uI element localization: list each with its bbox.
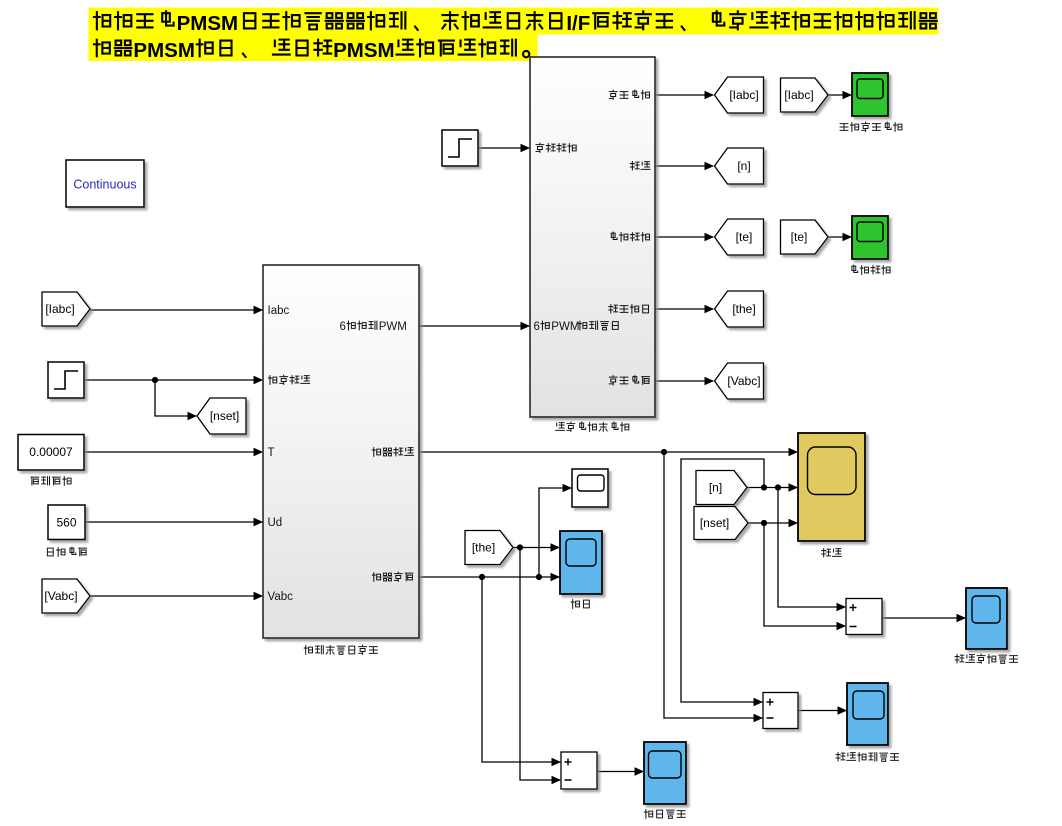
- svg-text:[the]: [the]: [732, 302, 755, 316]
- sum block 转速实际误差: [846, 599, 882, 635]
- wire from nset to scope 转速: [747, 522, 797, 524]
- caption 直流电压: [47, 547, 86, 556]
- junction nset: [761, 520, 767, 526]
- wire 转速 to goto n: [655, 165, 713, 167]
- scope 转速实际误差: [966, 588, 1007, 649]
- heading highlight line 1: [89, 8, 939, 35]
- svg-text:[nset]: [nset]: [210, 409, 239, 423]
- scope 位置误差: [644, 742, 686, 804]
- from tag te right: [781, 220, 829, 254]
- wire sum3 to scope 位置误差: [597, 771, 643, 773]
- wire the branch to sum3 minus: [520, 548, 560, 781]
- wire 转子位置 to goto the: [655, 308, 713, 310]
- wire 估算转速 to scope 转速: [419, 451, 797, 453]
- sum block 位置误差: [561, 752, 597, 789]
- step block 给定转速源: [48, 362, 84, 398]
- svg-text:[te]: [te]: [736, 230, 753, 244]
- scope 电磁转矩: [852, 216, 888, 259]
- svg-text:Ud: Ud: [268, 517, 283, 529]
- wire 定子电流 to goto Iabc: [655, 94, 713, 96]
- caption 转速: [822, 549, 842, 557]
- wire from n to scope 转速: [747, 487, 797, 489]
- step block 负载转矩源: [442, 130, 478, 166]
- wire step1 to control 给定转速: [84, 379, 262, 381]
- svg-text:Continuous: Continuous: [73, 178, 136, 192]
- from tag n mid: [696, 471, 747, 505]
- svg-text:[n]: [n]: [709, 481, 722, 495]
- svg-text:PWM: PWM: [379, 321, 407, 333]
- svg-text:[te]: [te]: [791, 230, 808, 244]
- wire from Iabc to scope: [828, 94, 851, 96]
- junction n 1: [761, 484, 767, 490]
- svg-text:[Iabc]: [Iabc]: [784, 88, 813, 102]
- block Continuous: [66, 160, 144, 207]
- svg-text:T: T: [268, 447, 275, 459]
- wire 0.00007 to T: [84, 451, 262, 453]
- goto tag te: [715, 219, 764, 255]
- goto tag nset: [197, 398, 246, 434]
- svg-text:560: 560: [56, 516, 76, 530]
- heading text line 1: [94, 11, 174, 29]
- junction n 2: [775, 484, 781, 490]
- wire sum2 to scope 转速观测误差: [798, 710, 846, 712]
- caption 逆变电路及电机: [556, 422, 629, 431]
- svg-text:PMSM: PMSM: [177, 12, 239, 35]
- goto tag the: [715, 291, 764, 327]
- svg-text:[Vabc]: [Vabc]: [727, 374, 760, 388]
- from tag Iabc right: [781, 78, 829, 112]
- constant 560: [48, 505, 85, 540]
- svg-text:6: 6: [340, 321, 346, 333]
- svg-text:PMSM: PMSM: [133, 39, 195, 62]
- scope white: [572, 469, 608, 507]
- heading text line 2: [94, 40, 131, 57]
- junction 估算转速: [661, 449, 667, 455]
- from tag nset mid: [694, 507, 748, 540]
- heading highlight line 2: [89, 35, 538, 62]
- svg-text:Iabc: Iabc: [268, 305, 290, 317]
- svg-text:PWM: PWM: [551, 321, 579, 333]
- wire control PWM to inverter: [419, 325, 529, 327]
- caption 电磁转矩: [852, 265, 890, 274]
- wire from te to scope: [828, 236, 851, 238]
- caption 位置: [571, 600, 589, 609]
- wire 估算角度 branch to white scope: [539, 488, 571, 577]
- wire nset branch to sum1 minus: [764, 523, 845, 626]
- from tag Vabc left: [42, 579, 90, 613]
- svg-text:[n]: [n]: [737, 159, 750, 173]
- svg-text:I/F: I/F: [566, 12, 590, 35]
- junction 估算角度 1: [479, 574, 485, 580]
- scope 位置: [560, 531, 602, 594]
- wire step2 to 负载转矩: [478, 147, 529, 149]
- caption 转速观测误差: [836, 753, 898, 762]
- caption 控制及信号发生: [304, 645, 377, 654]
- junction step1 branch: [152, 377, 158, 383]
- caption 位置误差: [644, 810, 685, 819]
- wire n branch to sum1 plus: [778, 488, 845, 608]
- wire from the to scope 位置: [513, 547, 559, 549]
- from tag Iabc left: [42, 292, 90, 326]
- wire sum1 to scope 转速实际误差: [882, 617, 965, 619]
- wire [Vabc] to control Vabc: [90, 595, 262, 597]
- constant 0.00007: [18, 435, 84, 471]
- svg-text:[Iabc]: [Iabc]: [729, 88, 758, 102]
- wire 估算转速 branch to sum2 minus: [664, 452, 762, 718]
- scope 三相定子电流: [852, 73, 888, 116]
- wire n branch to sum2 plus: [681, 459, 764, 702]
- svg-text:[Iabc]: [Iabc]: [45, 302, 74, 316]
- wire 定子电压 to goto Vabc: [655, 380, 713, 382]
- junction the: [517, 544, 523, 550]
- wire 估算角度 to scope 位置: [419, 576, 559, 578]
- subsystem 控制及信号发生: [263, 265, 419, 638]
- scope 转速观测误差: [847, 683, 888, 745]
- goto tag Iabc: [715, 77, 764, 113]
- svg-text:Vabc: Vabc: [268, 591, 294, 603]
- svg-text:[nset]: [nset]: [700, 516, 729, 530]
- sum block 转速观测误差: [763, 693, 798, 729]
- wire branch to [nset]: [155, 380, 196, 416]
- svg-text:6: 6: [534, 321, 540, 333]
- goto tag Vabc: [715, 363, 764, 399]
- wire [Iabc] to control Iabc: [90, 309, 262, 311]
- scope 转速: [798, 433, 865, 541]
- wire 560 to Ud: [85, 521, 262, 523]
- svg-text:[Vabc]: [Vabc]: [44, 589, 77, 603]
- svg-text:PMSM: PMSM: [333, 39, 395, 62]
- caption 三相定子电流: [840, 122, 902, 131]
- junction 估算角度 2: [536, 574, 542, 580]
- svg-text:0.00007: 0.00007: [29, 445, 73, 459]
- subsystem 逆变电路及电机: [530, 57, 655, 417]
- wire 电磁转矩 to goto te: [655, 236, 713, 238]
- caption 转速实际误差: [955, 654, 1017, 663]
- caption 调制周期: [31, 477, 71, 486]
- svg-text:[the]: [the]: [472, 541, 495, 555]
- from tag the mid: [465, 531, 513, 565]
- wire 估算角度 branch to sum3 plus: [482, 577, 560, 762]
- goto tag n: [715, 148, 764, 184]
